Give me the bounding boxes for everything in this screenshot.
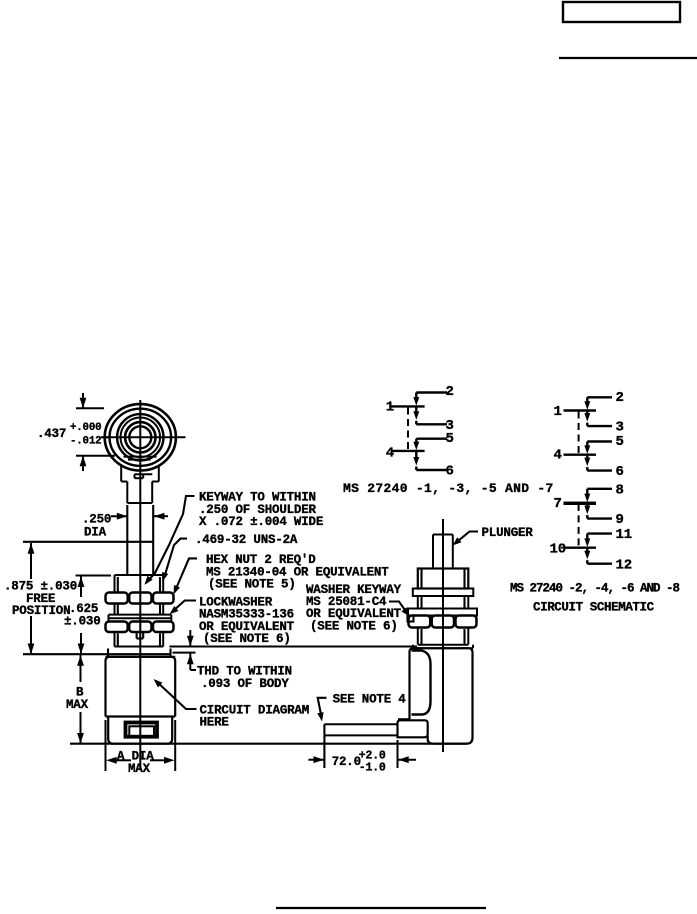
svg-text:.469-32 UNS-2A: .469-32 UNS-2A xyxy=(195,533,298,547)
dimension A DIA MAX extension lines xyxy=(105,720,107,771)
baseline at body bottom (long line to right view) xyxy=(70,743,467,745)
schematic B: mechanical link dashed line lower xyxy=(578,504,580,548)
left view lower body outline xyxy=(108,717,172,744)
left view keyway slot below nut 2 xyxy=(136,632,138,639)
left view thread line left upper xyxy=(117,577,119,593)
right view bushing lower segment xyxy=(417,628,419,645)
svg-text:PLUNGER: PLUNGER xyxy=(482,526,534,540)
right view keyway boss profile (lozenge) xyxy=(412,651,431,715)
schematic B: mechanical link dashed line upper xyxy=(578,412,580,455)
wire pin 7 common lead over-strike (thick in scan) xyxy=(564,502,597,505)
svg-text:2: 2 xyxy=(616,390,624,406)
dimension .437 top arrow xyxy=(82,393,84,408)
right view body step above cable xyxy=(398,718,410,720)
top view button outer circle xyxy=(125,422,155,452)
wire NC contact lead xyxy=(587,532,612,534)
header rule (top right) xyxy=(559,57,697,59)
left view body top line xyxy=(106,656,176,658)
wire common lead xyxy=(391,450,424,452)
svg-text:-.012: -.012 xyxy=(70,436,101,448)
right view keyway washer xyxy=(408,609,477,616)
hex nut 2 (three lobes) xyxy=(106,622,128,633)
svg-text:1: 1 xyxy=(386,400,394,416)
dimension .875 vertical line bottom part xyxy=(30,616,32,654)
lockwasher leader xyxy=(172,601,196,613)
wire NO contact lead xyxy=(415,467,417,471)
left view bushing right side xyxy=(162,575,164,593)
dash from -.012 to centerline xyxy=(103,436,109,438)
svg-text:8: 8 xyxy=(616,483,624,499)
top view bezel inner circle xyxy=(121,418,161,458)
left view mounting flange top line with dim extension xyxy=(23,653,171,655)
svg-text:12: 12 xyxy=(616,557,632,573)
dimension .437 bottom extension line xyxy=(76,455,115,457)
svg-text:+2.0: +2.0 xyxy=(359,749,386,762)
wire NC contact lead xyxy=(416,391,447,393)
top view keyway slot mark xyxy=(135,473,153,475)
svg-text:.437: .437 xyxy=(37,427,66,441)
top view horizontal centerline xyxy=(101,436,186,438)
wire common lead xyxy=(564,502,597,504)
svg-text:7: 7 xyxy=(554,496,562,512)
top view keyway boss wide part right side xyxy=(158,465,160,482)
svg-text:(SEE NOTE 6): (SEE NOTE 6) xyxy=(203,632,291,646)
left view plunger top line with free-position extension xyxy=(23,541,153,543)
wire NO contact lead xyxy=(586,467,588,471)
svg-text:MAX: MAX xyxy=(66,698,89,712)
wire common lead xyxy=(564,547,597,549)
right view body bottom left corner xyxy=(428,736,433,744)
top view keyway flat chord lower xyxy=(128,459,151,461)
movable contact arrow (normally open side) xyxy=(586,504,588,509)
svg-text:72.0: 72.0 xyxy=(332,755,361,769)
dimension .625 vertical line xyxy=(80,577,82,598)
movable contact arrow (normally open side) xyxy=(586,412,588,417)
svg-text:MS 27240 -1, -3, -5 AND -7: MS 27240 -1, -3, -5 AND -7 xyxy=(343,481,554,496)
left view plunger right side / extension xyxy=(152,505,154,575)
svg-text:11: 11 xyxy=(616,527,632,543)
left view bushing left side xyxy=(114,575,116,593)
svg-text:HERE: HERE xyxy=(200,715,229,729)
top view outer circle (bushing) xyxy=(105,404,176,470)
lockwasher (thin washer band) xyxy=(109,614,172,616)
right view keyway washer tab xyxy=(408,616,414,622)
top view keyway boss narrow right side xyxy=(151,482,153,504)
top view keyway flat chord upper xyxy=(124,456,157,458)
hex nut leader xyxy=(175,558,197,591)
circuit diagram leader xyxy=(156,681,197,709)
movable contact arrow (normally open side) xyxy=(586,456,588,461)
svg-text:9: 9 xyxy=(616,512,624,528)
movable contact arrow (normally open side) xyxy=(415,407,417,414)
wire NC contact lead xyxy=(587,440,612,442)
dimension .437 bottom arrow xyxy=(82,456,84,471)
left view bushing sides between nut and lockwasher xyxy=(114,604,116,615)
svg-text:MAX: MAX xyxy=(128,762,151,776)
top view keyway boss bottom xyxy=(127,502,152,504)
wire common lead xyxy=(564,454,597,456)
svg-text:10: 10 xyxy=(550,541,566,557)
svg-text:-1.0: -1.0 xyxy=(359,762,386,775)
right view bushing upper segment xyxy=(417,596,419,609)
top view second circle xyxy=(110,409,172,466)
left view body section line xyxy=(106,715,176,717)
dimension .093 body extension line xyxy=(173,652,196,654)
wire NC contact lead xyxy=(416,438,447,440)
top view keyway boss step left xyxy=(121,481,127,483)
svg-text:6: 6 xyxy=(616,464,624,480)
left view bushing top xyxy=(115,574,164,576)
right view cable connector block xyxy=(398,720,428,737)
dimension .625 top extension line xyxy=(76,575,112,577)
svg-text:1: 1 xyxy=(554,404,562,420)
svg-text:MS 27240 -2, -4, -6 AND -8: MS 27240 -2, -4, -6 AND -8 xyxy=(510,582,680,596)
svg-text:5: 5 xyxy=(616,434,624,450)
right view bushing bottom xyxy=(418,644,469,646)
left view circuit-diagram window (thick rectangle) xyxy=(126,723,158,737)
svg-text:POSITION: POSITION xyxy=(12,604,70,618)
left view bushing bottom (thread end) xyxy=(115,646,164,648)
right view body outline xyxy=(410,648,473,744)
svg-text:X .072 ±.004 WIDE: X .072 ±.004 WIDE xyxy=(199,515,323,529)
wire NO contact lead xyxy=(586,560,588,564)
svg-text:DIA: DIA xyxy=(84,525,107,539)
svg-text:.093 OF BODY: .093 OF BODY xyxy=(201,677,289,691)
svg-text:5: 5 xyxy=(446,431,454,447)
dimension 72.0 arrows xyxy=(308,759,324,761)
washer keyway leader xyxy=(389,602,407,614)
thread spec leader xyxy=(164,539,187,578)
wire NC contact lead xyxy=(587,488,612,490)
wire NC contact lead xyxy=(587,396,612,398)
left view plunger left side / extension xyxy=(126,505,128,575)
left view upper body outline xyxy=(106,657,176,717)
wire NO contact lead xyxy=(586,515,588,519)
right view flange xyxy=(413,647,473,649)
dimension A DIA MAX arrows (inside pointing out) xyxy=(116,759,131,761)
svg-text:(SEE NOTE 6): (SEE NOTE 6) xyxy=(310,620,398,634)
top view keyway boss step right xyxy=(152,481,159,483)
left view bushing sides lower xyxy=(114,632,116,647)
cable left end / extension line xyxy=(323,724,325,768)
wire NO contact lead xyxy=(586,423,588,427)
movable contact arrow (normally open side) xyxy=(415,452,417,461)
see note 4 leader xyxy=(318,698,327,717)
svg-text:±.030: ±.030 xyxy=(64,615,101,629)
right view plunger xyxy=(433,534,453,536)
schematic A: mechanical link dashed line xyxy=(407,408,409,451)
svg-text:2: 2 xyxy=(446,384,454,400)
left view thread dashes mid xyxy=(117,605,119,615)
left view thread dashes lower xyxy=(117,634,119,646)
dimension 72.0 right extension line xyxy=(397,740,399,768)
top view bezel circle xyxy=(117,414,163,460)
plunger leader xyxy=(455,532,478,544)
left view thread line right upper xyxy=(159,577,161,593)
dimension .437 top extension line xyxy=(76,407,104,409)
dimension .093 upper arrow xyxy=(189,630,191,647)
title block box (top right) xyxy=(563,2,680,22)
dimension .875 free position vertical line top part xyxy=(30,543,32,579)
right view hex nut (three lobes) xyxy=(409,616,431,628)
top view keyway boss narrow left side xyxy=(126,482,128,504)
keyway note leader xyxy=(146,496,195,583)
svg-text:(SEE NOTE 5): (SEE NOTE 5) xyxy=(208,578,296,592)
top view button inner circle xyxy=(129,426,151,448)
left view flange sides xyxy=(107,649,109,657)
right view shoulder block xyxy=(418,569,469,589)
dimension B MAX vertical line xyxy=(80,655,82,682)
dimension .093 lower arrow and leader to text xyxy=(189,654,191,671)
svg-text:4: 4 xyxy=(386,446,394,462)
top view keyway boss wide part left side xyxy=(120,465,122,482)
movable contact arrow (normally open side) xyxy=(586,549,588,555)
svg-text:SEE NOTE 4: SEE NOTE 4 xyxy=(333,692,407,706)
footer rule (bottom center) xyxy=(276,907,486,909)
wire common lead xyxy=(391,405,424,407)
cable (lead wires) xyxy=(324,723,397,725)
right view washer 1 xyxy=(413,589,474,597)
hex nut 1 (three lobes) xyxy=(106,593,128,604)
wire NO contact lead xyxy=(415,421,417,425)
svg-text:CIRCUIT SCHEMATIC: CIRCUIT SCHEMATIC xyxy=(533,601,655,615)
thread end extension line (long, to right view) xyxy=(170,645,418,647)
wire common lead xyxy=(564,409,597,411)
right view vertical centerline xyxy=(442,519,444,752)
svg-text:4: 4 xyxy=(554,448,562,464)
svg-text:6: 6 xyxy=(446,464,454,480)
svg-text:+.000: +.000 xyxy=(70,422,101,434)
top view vertical centerline (continues through side view) xyxy=(139,400,141,770)
